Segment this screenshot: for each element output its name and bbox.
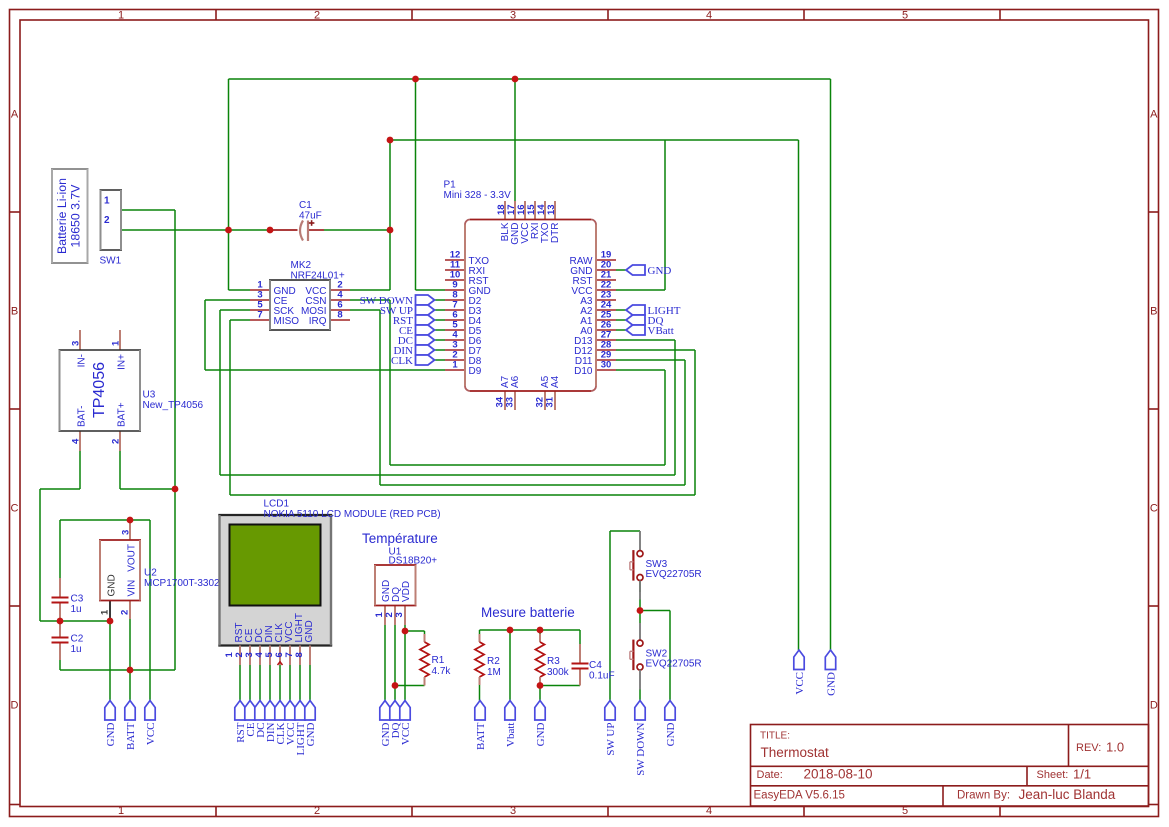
svg-text:3: 3 bbox=[121, 530, 132, 535]
svg-text:C: C bbox=[1150, 503, 1158, 515]
svg-text:VCC: VCC bbox=[145, 723, 157, 746]
svg-text:A: A bbox=[1150, 109, 1158, 121]
svg-text:TITLE:: TITLE: bbox=[760, 731, 790, 742]
svg-text:5: 5 bbox=[902, 805, 908, 817]
svg-text:NOKIA 5110 LCD MODULE (RED PCB: NOKIA 5110 LCD MODULE (RED PCB) bbox=[264, 509, 441, 520]
svg-text:1: 1 bbox=[452, 360, 458, 371]
svg-text:C2: C2 bbox=[71, 634, 84, 645]
svg-text:31: 31 bbox=[545, 396, 556, 407]
svg-text:GND: GND bbox=[826, 672, 838, 696]
svg-text:Date:: Date: bbox=[757, 769, 783, 781]
svg-text:2: 2 bbox=[314, 10, 320, 22]
svg-text:DTR: DTR bbox=[550, 223, 561, 244]
svg-text:EasyEDA V5.6.15: EasyEDA V5.6.15 bbox=[754, 790, 845, 802]
svg-text:TP4056: TP4056 bbox=[91, 362, 108, 418]
svg-text:VBatt: VBatt bbox=[648, 325, 674, 337]
svg-text:1: 1 bbox=[104, 196, 110, 207]
svg-text:2: 2 bbox=[104, 215, 110, 226]
svg-text:VCC: VCC bbox=[794, 672, 806, 695]
svg-text:1: 1 bbox=[118, 10, 124, 22]
svg-text:18650 3.7V: 18650 3.7V bbox=[69, 184, 83, 248]
svg-text:D10: D10 bbox=[574, 366, 593, 377]
svg-text:U3: U3 bbox=[143, 390, 156, 401]
svg-text:0.1uF: 0.1uF bbox=[589, 671, 615, 682]
svg-text:Mesure batterie: Mesure batterie bbox=[481, 605, 575, 620]
svg-text:Température: Température bbox=[362, 531, 438, 546]
svg-text:4: 4 bbox=[706, 10, 712, 22]
svg-text:2018-08-10: 2018-08-10 bbox=[804, 767, 873, 782]
svg-text:A: A bbox=[11, 109, 19, 121]
svg-text:8: 8 bbox=[337, 310, 342, 321]
svg-text:IRQ: IRQ bbox=[309, 316, 327, 327]
svg-text:GND: GND bbox=[305, 722, 317, 746]
svg-text:5: 5 bbox=[902, 10, 908, 22]
svg-text:1u: 1u bbox=[71, 644, 82, 655]
svg-text:1: 1 bbox=[111, 340, 122, 346]
svg-text:U2: U2 bbox=[144, 568, 157, 579]
svg-text:VDD: VDD bbox=[401, 581, 412, 602]
svg-text:IN-: IN- bbox=[77, 354, 88, 367]
svg-text:33: 33 bbox=[505, 397, 516, 408]
svg-text:IN+: IN+ bbox=[117, 354, 128, 370]
svg-text:DS18B20+: DS18B20+ bbox=[389, 556, 438, 567]
svg-text:SW UP: SW UP bbox=[605, 723, 617, 756]
svg-text:A4: A4 bbox=[550, 375, 561, 388]
svg-text:2: 2 bbox=[120, 610, 131, 615]
svg-text:A6: A6 bbox=[510, 375, 521, 388]
svg-text:VCC: VCC bbox=[400, 723, 412, 746]
svg-text:GND: GND bbox=[105, 722, 117, 746]
svg-text:1.0: 1.0 bbox=[1106, 740, 1124, 755]
svg-text:1u: 1u bbox=[71, 604, 82, 615]
svg-text:B: B bbox=[1150, 306, 1157, 318]
svg-text:Jean-luc Blanda: Jean-luc Blanda bbox=[1019, 787, 1116, 802]
svg-text:New_TP4056: New_TP4056 bbox=[143, 400, 204, 411]
svg-text:R3: R3 bbox=[547, 656, 560, 667]
svg-text:2: 2 bbox=[314, 805, 320, 817]
svg-text:3: 3 bbox=[510, 10, 516, 22]
svg-text:B: B bbox=[11, 306, 18, 318]
svg-text:8: 8 bbox=[294, 652, 305, 657]
svg-text:1/1: 1/1 bbox=[1073, 766, 1091, 781]
svg-text:GND: GND bbox=[535, 722, 547, 746]
svg-text:4.7k: 4.7k bbox=[432, 666, 452, 677]
svg-text:EVQ22705R: EVQ22705R bbox=[646, 659, 702, 670]
svg-text:GND: GND bbox=[107, 574, 118, 596]
svg-text:47uF: 47uF bbox=[299, 211, 322, 222]
svg-text:VIN: VIN bbox=[127, 580, 138, 597]
svg-text:4: 4 bbox=[71, 438, 82, 444]
svg-text:D: D bbox=[1150, 700, 1158, 712]
svg-text:30: 30 bbox=[601, 360, 612, 371]
svg-text:GND: GND bbox=[304, 620, 315, 642]
svg-text:MISO: MISO bbox=[274, 316, 300, 327]
svg-text:C1: C1 bbox=[299, 200, 312, 211]
svg-text:C3: C3 bbox=[71, 594, 84, 605]
svg-text:SW DOWN: SW DOWN bbox=[635, 722, 647, 775]
svg-text:P1: P1 bbox=[444, 180, 457, 191]
svg-text:1: 1 bbox=[118, 805, 124, 817]
svg-text:Thermostat: Thermostat bbox=[761, 745, 830, 760]
svg-text:NRF24L01+: NRF24L01+ bbox=[291, 271, 345, 282]
svg-text:3: 3 bbox=[510, 805, 516, 817]
svg-text:BAT+: BAT+ bbox=[117, 402, 128, 427]
svg-text:BATT: BATT bbox=[475, 722, 487, 750]
svg-text:3: 3 bbox=[71, 341, 82, 346]
svg-text:Sheet:: Sheet: bbox=[1037, 769, 1069, 781]
svg-text:GND: GND bbox=[665, 722, 677, 746]
svg-text:BATT: BATT bbox=[125, 722, 137, 750]
svg-text:GND: GND bbox=[648, 265, 672, 277]
svg-text:Vbatt: Vbatt bbox=[505, 723, 517, 747]
svg-text:300k: 300k bbox=[547, 667, 570, 678]
svg-text:Drawn By:: Drawn By: bbox=[957, 790, 1010, 802]
svg-text:1: 1 bbox=[100, 609, 111, 615]
svg-text:13: 13 bbox=[546, 204, 557, 215]
svg-text:2: 2 bbox=[111, 439, 122, 444]
svg-text:C4: C4 bbox=[589, 660, 602, 671]
svg-text:R1: R1 bbox=[432, 655, 445, 666]
svg-text:4: 4 bbox=[706, 805, 712, 817]
svg-text:CLK: CLK bbox=[391, 355, 413, 367]
svg-text:MK2: MK2 bbox=[291, 260, 312, 271]
svg-text:BAT-: BAT- bbox=[77, 406, 88, 427]
svg-text:1M: 1M bbox=[487, 667, 501, 678]
svg-text:Batterie Li-ion: Batterie Li-ion bbox=[55, 178, 69, 254]
svg-text:D9: D9 bbox=[469, 366, 482, 377]
svg-text:VOUT: VOUT bbox=[127, 544, 138, 572]
svg-text:7: 7 bbox=[257, 310, 262, 321]
svg-text:D: D bbox=[11, 700, 19, 712]
svg-text:REV:: REV: bbox=[1076, 742, 1101, 754]
svg-text:3: 3 bbox=[394, 612, 405, 617]
svg-text:SW1: SW1 bbox=[100, 256, 122, 267]
svg-text:LCD1: LCD1 bbox=[264, 499, 290, 510]
svg-text:EVQ22705R: EVQ22705R bbox=[646, 569, 702, 580]
svg-text:C: C bbox=[11, 503, 19, 515]
svg-text:Mini 328 - 3.3V: Mini 328 - 3.3V bbox=[444, 190, 512, 201]
svg-text:R2: R2 bbox=[487, 656, 500, 667]
